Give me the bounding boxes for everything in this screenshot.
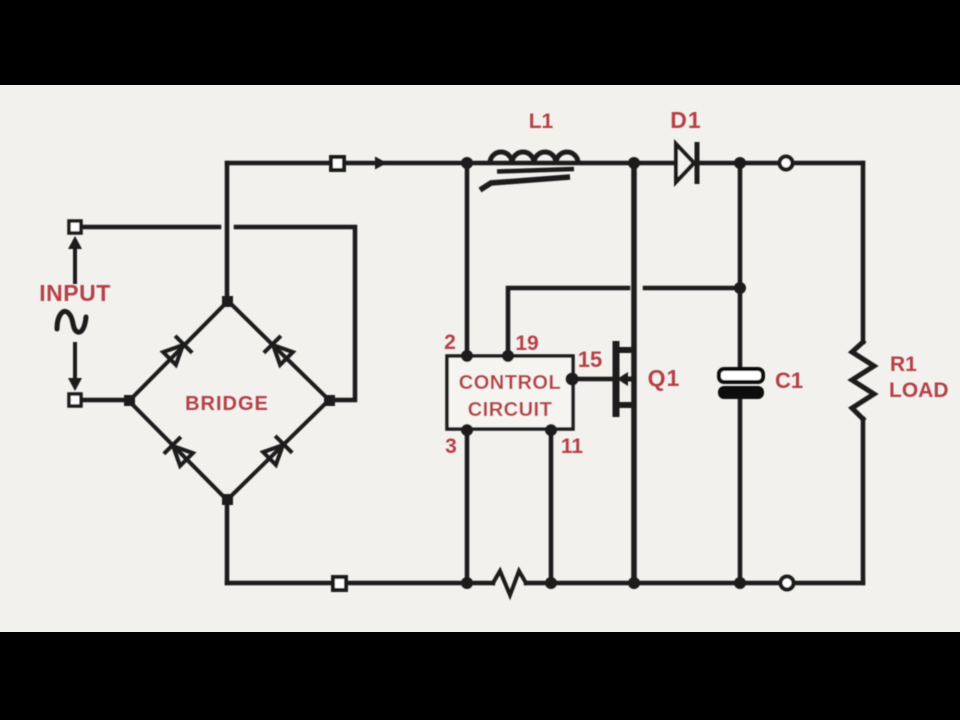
svg-text:R1: R1 <box>890 353 917 376</box>
svg-text:LOAD: LOAD <box>889 379 949 402</box>
svg-text:2: 2 <box>444 331 456 354</box>
svg-text:11: 11 <box>561 435 584 458</box>
svg-text:D1: D1 <box>670 107 701 133</box>
svg-text:15: 15 <box>578 347 602 372</box>
svg-text:3: 3 <box>445 435 457 458</box>
svg-text:CONTROL: CONTROL <box>459 372 561 394</box>
svg-text:Q1: Q1 <box>648 365 681 391</box>
svg-text:BRIDGE: BRIDGE <box>185 393 269 415</box>
svg-text:CIRCUIT: CIRCUIT <box>468 399 553 421</box>
svg-text:C1: C1 <box>775 368 803 393</box>
svg-text:L1: L1 <box>529 110 554 133</box>
svg-text:19: 19 <box>515 332 538 355</box>
svg-text:INPUT: INPUT <box>39 280 111 306</box>
